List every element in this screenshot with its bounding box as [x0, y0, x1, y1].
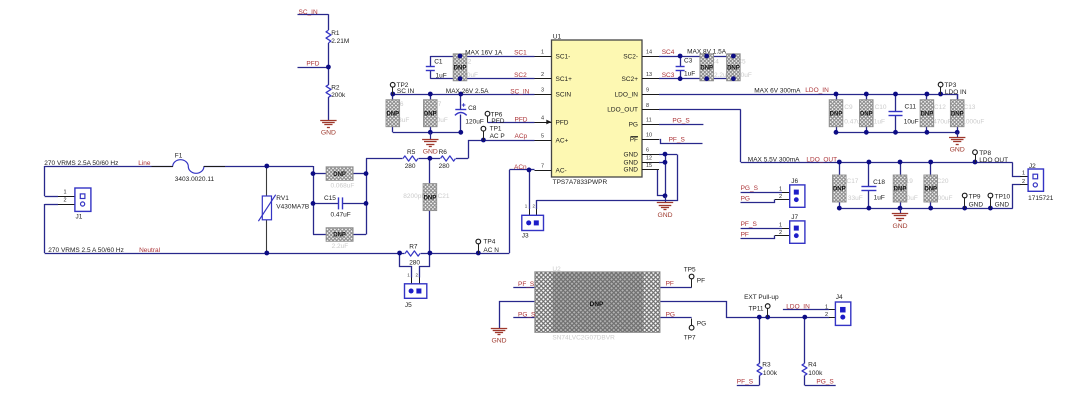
svg-text:2.2uF: 2.2uF	[332, 243, 349, 250]
svg-text:SC1+: SC1+	[556, 76, 573, 83]
svg-text:4: 4	[541, 115, 544, 121]
svg-text:3403.0020.11: 3403.0020.11	[175, 176, 215, 183]
svg-text:10: 10	[646, 133, 652, 139]
svg-text:C21: C21	[438, 193, 450, 200]
svg-text:AC N: AC N	[483, 247, 499, 254]
svg-text:200k: 200k	[331, 92, 346, 99]
svg-text:MAX 8V 1.5A: MAX 8V 1.5A	[687, 48, 727, 55]
svg-text:1: 1	[63, 190, 66, 196]
svg-text:DNP: DNP	[424, 195, 437, 201]
svg-text:1uF: 1uF	[684, 71, 695, 78]
svg-text:C15: C15	[324, 195, 336, 202]
svg-text:R3: R3	[762, 361, 771, 368]
svg-text:TPS7A7833PWPR: TPS7A7833PWPR	[553, 179, 608, 186]
svg-text:DNP: DNP	[921, 111, 934, 117]
svg-text:GND: GND	[969, 201, 984, 208]
svg-text:TP8: TP8	[979, 150, 991, 157]
svg-text:SC2-: SC2-	[623, 53, 638, 60]
svg-text:PF_S: PF_S	[737, 378, 754, 385]
svg-text:1uF: 1uF	[874, 195, 885, 202]
svg-text:PFD: PFD	[556, 119, 569, 126]
svg-text:9: 9	[646, 87, 649, 93]
svg-text:C12: C12	[934, 104, 946, 111]
svg-text:6: 6	[646, 148, 649, 154]
svg-text:GND: GND	[995, 201, 1010, 208]
svg-text:SC2+: SC2+	[622, 76, 639, 83]
svg-text:GND: GND	[624, 167, 639, 174]
svg-text:PFD: PFD	[491, 118, 504, 125]
svg-text:PF_S: PF_S	[669, 137, 686, 144]
svg-text:PF_S: PF_S	[741, 221, 758, 228]
svg-text:470uF: 470uF	[933, 118, 951, 125]
svg-text:2: 2	[779, 194, 782, 200]
svg-text:PG: PG	[629, 122, 638, 129]
svg-text:J1: J1	[76, 214, 83, 221]
svg-text:TP5: TP5	[684, 266, 696, 273]
svg-text:2.21M: 2.21M	[331, 38, 349, 45]
svg-text:LDO_OUT: LDO_OUT	[806, 156, 837, 163]
svg-text:EXT Pull-up: EXT Pull-up	[744, 294, 779, 301]
svg-text:GND: GND	[423, 149, 438, 156]
svg-text:120uF: 120uF	[465, 118, 483, 125]
svg-text:2: 2	[541, 72, 544, 78]
svg-text:8: 8	[646, 103, 649, 109]
svg-text:13: 13	[646, 72, 652, 78]
svg-text:SC_IN: SC_IN	[299, 9, 318, 16]
svg-text:0.068uF: 0.068uF	[331, 183, 355, 190]
svg-text:C9: C9	[844, 104, 853, 111]
svg-text:V430MA7B: V430MA7B	[276, 203, 309, 210]
svg-text:GND: GND	[892, 223, 907, 230]
svg-text:SC4: SC4	[662, 49, 675, 56]
svg-text:1: 1	[779, 186, 782, 192]
svg-text:SC1: SC1	[514, 49, 527, 56]
svg-text:2: 2	[1022, 179, 1025, 185]
svg-text:PF: PF	[666, 281, 674, 288]
svg-text:LDO_IN: LDO_IN	[805, 87, 829, 94]
svg-text:GND: GND	[657, 212, 672, 219]
svg-text:PG_S: PG_S	[741, 185, 759, 192]
svg-text:DNP: DNP	[951, 111, 964, 117]
svg-text:1uF: 1uF	[874, 118, 885, 125]
svg-text:R5: R5	[407, 149, 416, 156]
svg-text:SC IN: SC IN	[397, 88, 415, 95]
svg-text:SN74LVC2G07DBVR: SN74LVC2G07DBVR	[552, 335, 615, 342]
svg-text:LDO_IN: LDO_IN	[786, 304, 810, 311]
svg-text:J4: J4	[836, 294, 843, 301]
svg-text:LDO_IN: LDO_IN	[615, 91, 639, 98]
svg-text:DNP: DNP	[830, 111, 843, 117]
svg-text:GND: GND	[491, 337, 506, 344]
svg-text:TP10: TP10	[995, 193, 1011, 200]
svg-text:C18: C18	[873, 179, 885, 186]
svg-text:PG: PG	[697, 321, 706, 328]
svg-text:J7: J7	[791, 214, 798, 221]
svg-text:DNP: DNP	[727, 66, 740, 72]
svg-text:R1: R1	[331, 30, 340, 37]
svg-text:280: 280	[405, 163, 416, 170]
svg-text:ACp: ACp	[515, 133, 528, 140]
svg-text:LDO IN: LDO IN	[945, 89, 967, 96]
svg-text:PF: PF	[741, 232, 749, 239]
svg-text:PG_S: PG_S	[518, 312, 536, 319]
svg-text:11: 11	[646, 118, 652, 124]
svg-text:GND: GND	[321, 130, 336, 137]
svg-text:1000uF: 1000uF	[962, 118, 984, 125]
svg-text:C17: C17	[847, 178, 859, 185]
svg-text:TP9: TP9	[969, 193, 981, 200]
svg-text:C10: C10	[875, 104, 887, 111]
svg-text:280: 280	[409, 260, 420, 267]
svg-text:10uF: 10uF	[904, 118, 919, 125]
svg-text:MAX 6V 300mA: MAX 6V 300mA	[754, 87, 801, 94]
svg-text:8200pF: 8200pF	[403, 193, 425, 200]
svg-text:5: 5	[541, 133, 544, 139]
svg-text:2: 2	[63, 198, 66, 204]
svg-text:DNP: DNP	[833, 187, 846, 193]
svg-text:TP7: TP7	[684, 335, 696, 342]
svg-text:14: 14	[646, 49, 652, 55]
svg-text:GND: GND	[950, 147, 965, 154]
svg-text:U1: U1	[553, 33, 562, 40]
svg-text:AC+: AC+	[556, 137, 569, 144]
svg-text:1: 1	[1022, 170, 1025, 176]
svg-text:R7: R7	[409, 243, 418, 250]
svg-text:7: 7	[541, 163, 544, 169]
svg-text:AC-: AC-	[556, 167, 567, 174]
svg-text:1: 1	[779, 222, 782, 228]
svg-text:1uF: 1uF	[436, 72, 447, 79]
svg-text:1715721: 1715721	[1028, 195, 1054, 202]
svg-text:SC1-: SC1-	[556, 53, 571, 60]
svg-text:DNP: DNP	[924, 187, 937, 193]
svg-text:GND: GND	[624, 151, 639, 158]
svg-text:33uF: 33uF	[848, 195, 863, 202]
svg-text:PFD: PFD	[306, 61, 319, 68]
svg-text:C8: C8	[468, 105, 477, 112]
svg-text:C11: C11	[905, 103, 917, 110]
svg-text:DNP: DNP	[454, 66, 467, 72]
svg-text:GND: GND	[624, 160, 639, 167]
svg-text:DNP: DNP	[860, 111, 873, 117]
svg-text:280: 280	[439, 163, 450, 170]
svg-text:2: 2	[825, 312, 828, 318]
svg-text:J2: J2	[1029, 163, 1036, 170]
svg-text:RV1: RV1	[276, 195, 289, 202]
svg-text:AC P: AC P	[490, 133, 505, 140]
svg-text:DNP: DNP	[333, 172, 346, 178]
svg-text:Line: Line	[138, 160, 151, 167]
svg-text:PG_S: PG_S	[672, 117, 690, 124]
svg-text:LDO_OUT: LDO_OUT	[607, 107, 638, 114]
svg-text:DNP: DNP	[424, 111, 437, 117]
svg-text:270 VRMS 2.5A 50/60 Hz: 270 VRMS 2.5A 50/60 Hz	[44, 160, 118, 167]
svg-text:C1: C1	[434, 58, 443, 65]
svg-text:0.47uF: 0.47uF	[331, 211, 351, 218]
svg-text:TP1: TP1	[490, 126, 502, 133]
svg-text:1: 1	[825, 305, 828, 311]
svg-text:J3: J3	[522, 232, 529, 239]
svg-text:1: 1	[541, 49, 544, 55]
svg-text:Neutral: Neutral	[139, 247, 161, 254]
svg-text:DNP: DNP	[590, 301, 604, 308]
svg-text:C3: C3	[684, 58, 693, 65]
svg-text:LDO OUT: LDO OUT	[979, 157, 1008, 164]
svg-text:PF: PF	[697, 278, 705, 285]
svg-text:ACn: ACn	[514, 164, 527, 171]
svg-text:DNP: DNP	[894, 187, 907, 193]
svg-text:F1: F1	[175, 153, 183, 160]
svg-text:MAX 5.5V 300mA: MAX 5.5V 300mA	[748, 156, 800, 163]
svg-text:MAX 16V 1A: MAX 16V 1A	[465, 49, 503, 56]
svg-text:PF_S: PF_S	[518, 281, 535, 288]
svg-text:PF: PF	[630, 137, 638, 144]
svg-text:C13: C13	[964, 104, 976, 111]
svg-text:J6: J6	[791, 178, 798, 185]
svg-text:TP11: TP11	[748, 305, 763, 312]
svg-text:3: 3	[541, 87, 544, 93]
svg-text:100k: 100k	[763, 370, 778, 377]
svg-text:MAX 26V 2.5A: MAX 26V 2.5A	[446, 88, 489, 95]
svg-text:SCIN: SCIN	[556, 91, 572, 98]
svg-text:2: 2	[779, 230, 782, 236]
svg-text:SC_IN: SC_IN	[510, 88, 529, 95]
svg-text:270 VRMS 2.5 A 50/60 Hz: 270 VRMS 2.5 A 50/60 Hz	[48, 247, 124, 254]
svg-text:100k: 100k	[808, 370, 823, 377]
svg-text:TP4: TP4	[483, 239, 495, 246]
svg-text:15: 15	[646, 163, 652, 169]
svg-text:PG: PG	[666, 312, 675, 319]
svg-text:DNP: DNP	[700, 66, 713, 72]
svg-text:PFD: PFD	[515, 116, 528, 123]
svg-text:R6: R6	[439, 149, 448, 156]
svg-text:PG_S: PG_S	[816, 378, 834, 385]
svg-text:R2: R2	[331, 85, 340, 92]
svg-text:SC2: SC2	[514, 72, 527, 79]
svg-text:C20: C20	[937, 178, 949, 185]
svg-text:DNP: DNP	[386, 111, 399, 117]
svg-text:R4: R4	[808, 361, 817, 368]
svg-text:PG: PG	[741, 196, 750, 203]
svg-text:SC3: SC3	[662, 72, 675, 79]
svg-text:DNP: DNP	[333, 233, 346, 239]
svg-text:12: 12	[646, 156, 652, 162]
svg-text:J5: J5	[405, 302, 412, 309]
